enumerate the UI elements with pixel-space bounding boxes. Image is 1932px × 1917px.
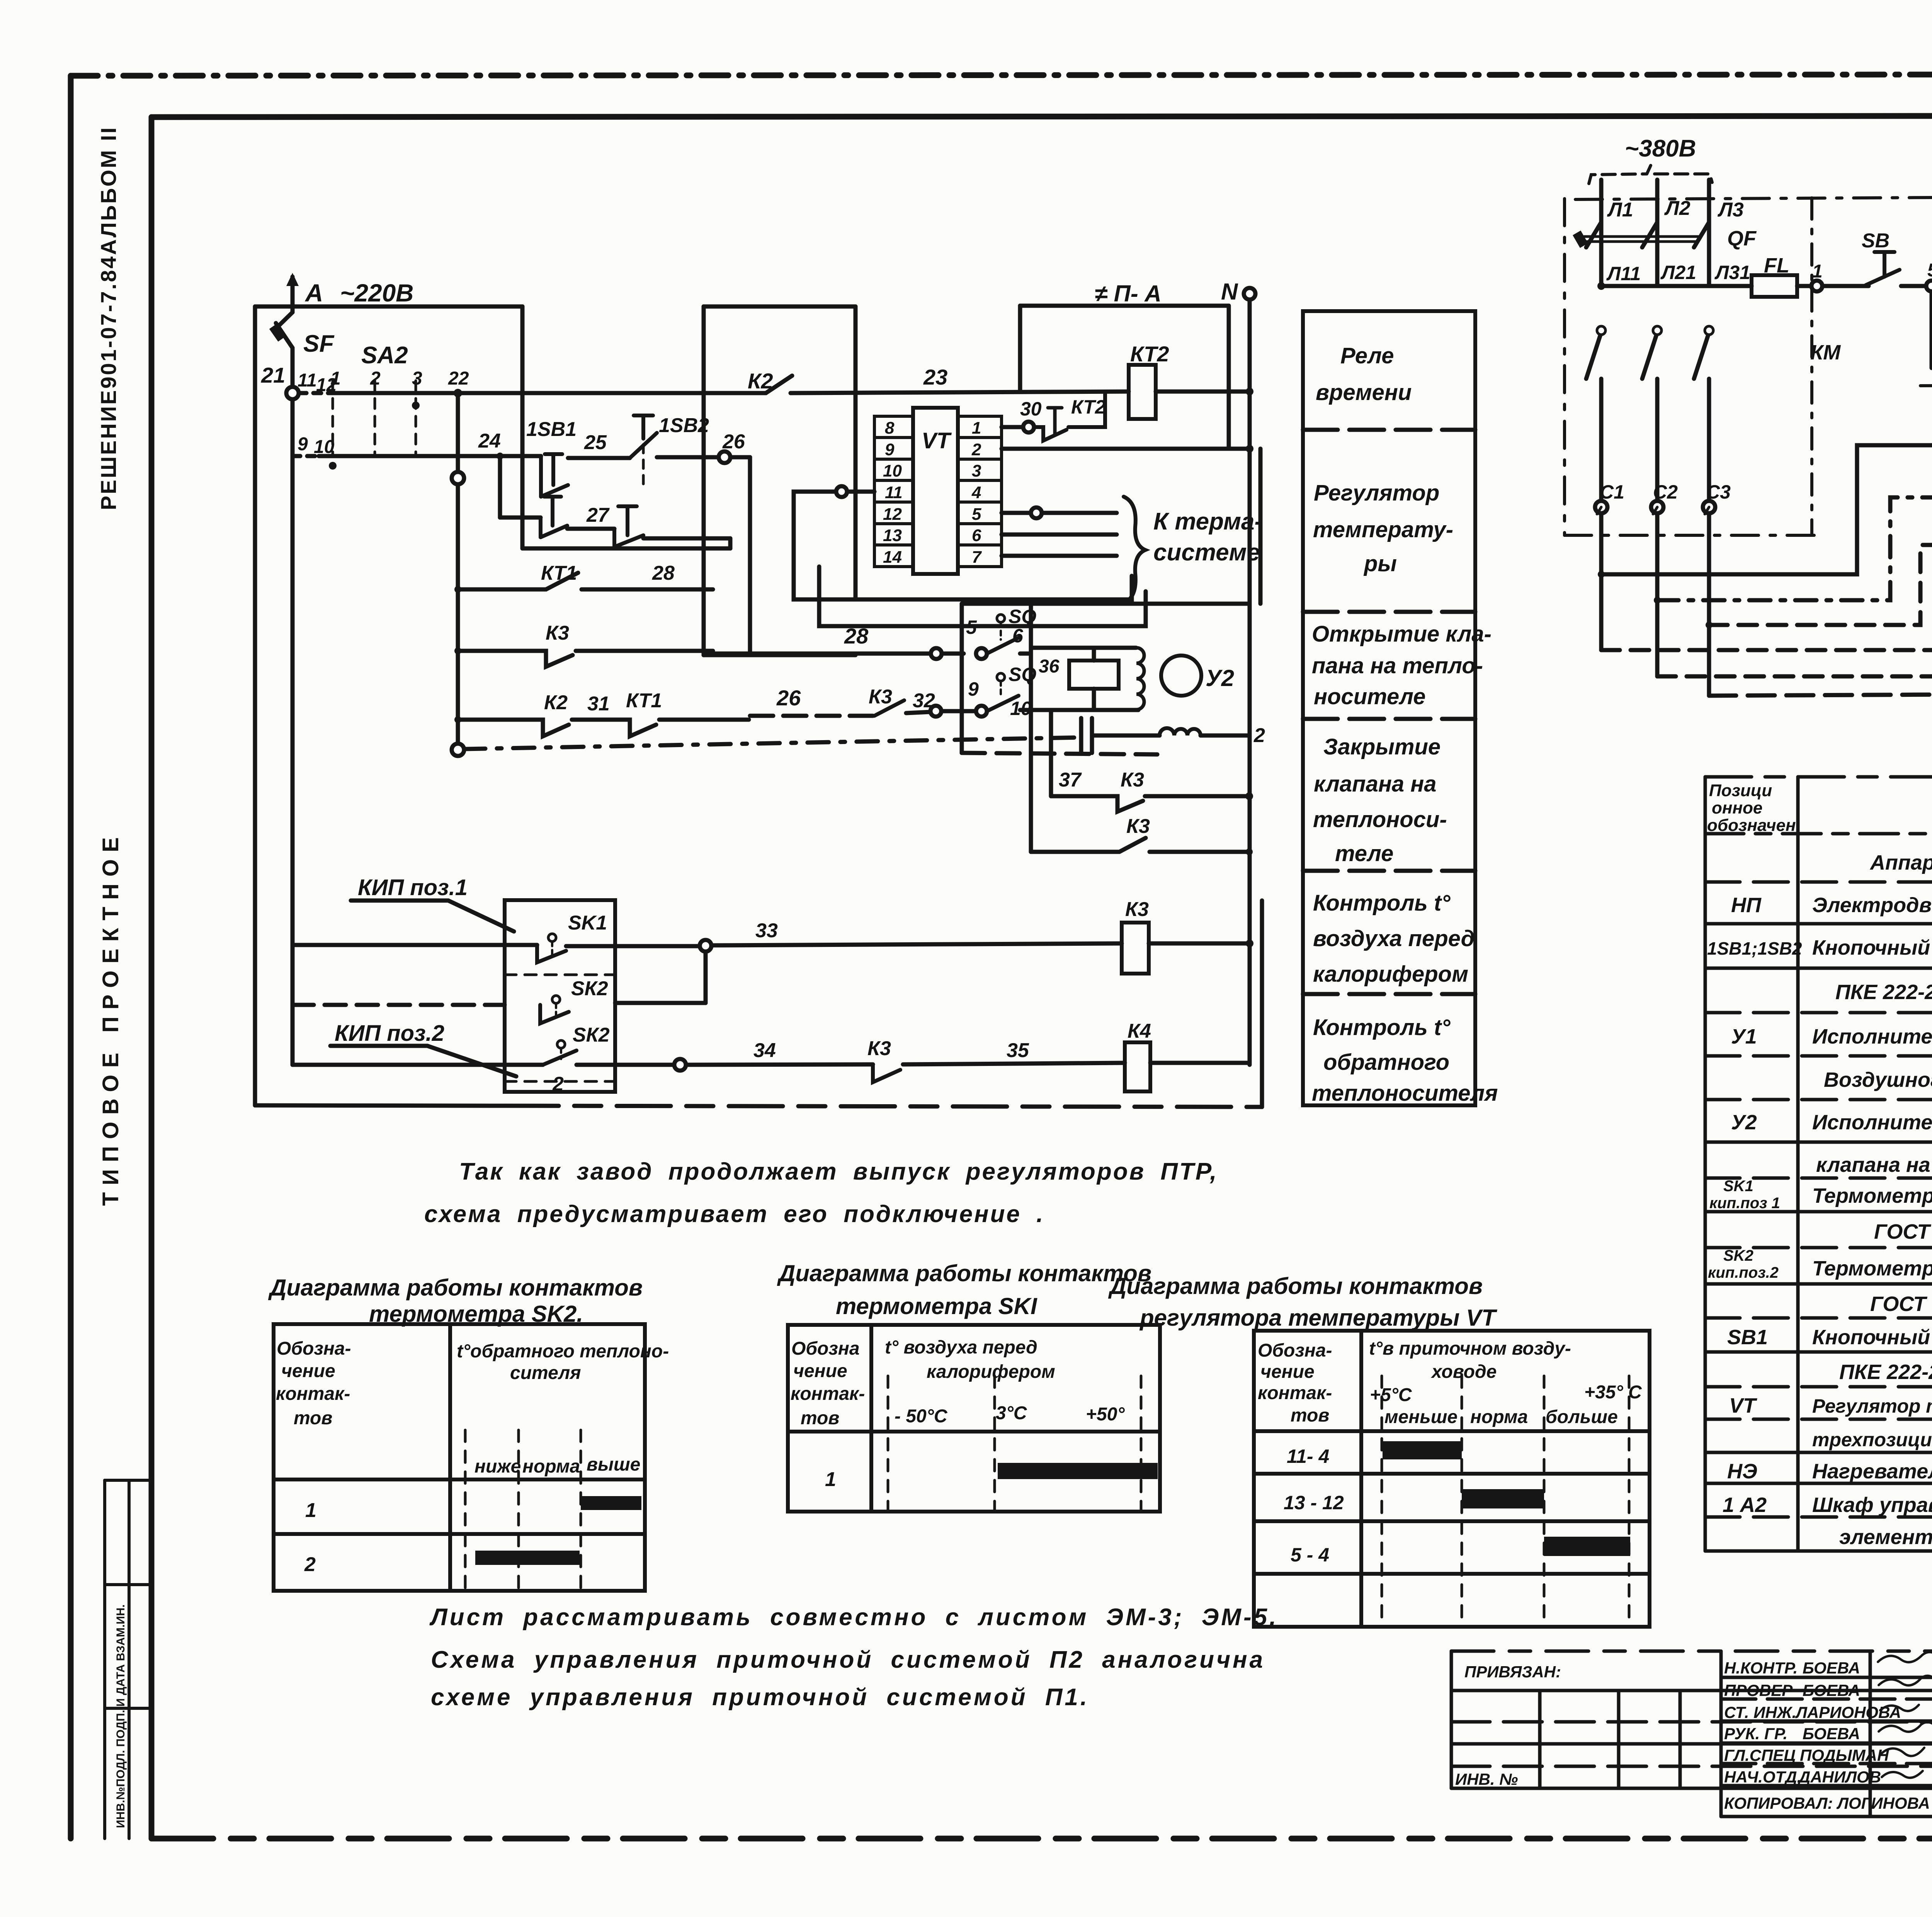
breaker SF xyxy=(277,312,293,328)
svg-text:ИНВ. №: ИНВ. № xyxy=(1455,1770,1518,1788)
svg-text:12: 12 xyxy=(883,505,902,524)
svg-text:28: 28 xyxy=(652,562,675,584)
svg-text:Л21: Л21 xyxy=(1660,262,1696,283)
svg-text:11: 11 xyxy=(885,483,903,502)
inner frame left xyxy=(149,117,155,1839)
svg-text:КМ: КМ xyxy=(1810,341,1841,364)
svg-text:2: 2 xyxy=(971,440,981,459)
bar row1 vyshe xyxy=(581,1496,641,1510)
svg-text:Контроль t°: Контроль t° xyxy=(1313,890,1451,916)
svg-text:Нагревательный элемент N=1.6 к: Нагревательный элемент N=1.6 кВт xyxy=(1812,1460,1932,1483)
svg-text:норма: норма xyxy=(1470,1407,1528,1427)
svg-text:7: 7 xyxy=(972,548,982,567)
svg-text:У2: У2 xyxy=(1731,1111,1757,1134)
svg-text:ТИПОВОЕ ПРОЕКТНОЕ: ТИПОВОЕ ПРОЕКТНОЕ xyxy=(98,830,123,1206)
svg-text:К3: К3 xyxy=(1121,769,1144,791)
svg-text:КОПИРОВАЛ: ЛОГИНОВА: КОПИРОВАЛ: ЛОГИНОВА xyxy=(1724,1794,1930,1812)
svg-text:14: 14 xyxy=(883,548,902,567)
node 22 junction xyxy=(454,389,462,397)
svg-text:Исполнительный механизм: Исполнительный механизм xyxy=(1812,1111,1932,1134)
svg-text:теле: теле xyxy=(1335,841,1393,866)
svg-text:НЭ: НЭ xyxy=(1727,1460,1757,1483)
node on dash rail xyxy=(452,744,464,756)
svg-text:5: 5 xyxy=(966,616,977,638)
bar row1 norma-bolshe xyxy=(998,1463,1158,1479)
svg-text:13 - 12: 13 - 12 xyxy=(1284,1492,1344,1514)
svg-text:ПРОВЕР: ПРОВЕР xyxy=(1724,1681,1793,1699)
svg-text:клапана на теплоносителе: клапана на теплоносителе xyxy=(1816,1153,1932,1176)
svg-text:1: 1 xyxy=(972,419,981,438)
svg-text:ры: ры xyxy=(1363,551,1397,576)
svg-text:Обозна: Обозна xyxy=(791,1338,860,1359)
svg-text:Позици: Позици xyxy=(1709,781,1772,800)
svg-text:Диаграмма работы контактов: Диаграмма работы контактов xyxy=(1108,1273,1483,1299)
svg-text:калорифером: калорифером xyxy=(927,1362,1055,1382)
wires pins 5 6 7 to thermosystem xyxy=(1002,511,1031,515)
svg-text:13: 13 xyxy=(883,526,902,545)
column dividers xyxy=(1796,777,1800,1551)
svg-text:35: 35 xyxy=(1007,1039,1029,1062)
bar row2 nizhe xyxy=(475,1551,580,1565)
svg-text:8: 8 xyxy=(885,419,895,438)
svg-text:Открытие кла-: Открытие кла- xyxy=(1312,621,1492,647)
svg-text:К3: К3 xyxy=(869,686,892,708)
svg-text:чение: чение xyxy=(793,1361,847,1381)
svg-text:t°обратного теплоно-: t°обратного теплоно- xyxy=(457,1341,669,1362)
wire line2 xyxy=(293,454,319,458)
svg-text:1: 1 xyxy=(305,1499,316,1522)
svg-text:ПКЕ 222-2У3 ТУ16.526.217-78: ПКЕ 222-2У3 ТУ16.526.217-78 xyxy=(1835,981,1932,1004)
svg-text:- 50°С: - 50°С xyxy=(895,1406,948,1427)
svg-text:тов: тов xyxy=(801,1408,839,1428)
svg-text:чение: чение xyxy=(1260,1362,1315,1382)
svg-text:22: 22 xyxy=(448,368,469,389)
wire top connector xyxy=(704,305,855,309)
svg-text:Л2: Л2 xyxy=(1664,197,1690,220)
KIP box xyxy=(505,900,615,1092)
VT pin numbers xyxy=(883,419,982,567)
svg-text:кип.поз.2: кип.поз.2 xyxy=(1708,1264,1779,1281)
svg-text:кип.поз 1: кип.поз 1 xyxy=(1709,1195,1780,1212)
svg-text:Н.КОНТР.: Н.КОНТР. xyxy=(1724,1659,1798,1677)
svg-text:КИП поз.1: КИП поз.1 xyxy=(358,875,468,900)
svg-text:6: 6 xyxy=(972,526,981,545)
feed C3 to H3 dashed xyxy=(1706,621,1713,628)
svg-text:Регулятор: Регулятор xyxy=(1314,480,1439,506)
svg-text:26: 26 xyxy=(776,686,801,710)
svg-text:ИНВ.№ПОДЛ. ПОДП. И ДАТА ВЗ: ИНВ.№ПОДЛ. ПОДП. И ДАТА ВЗАМ.ИН. xyxy=(114,1604,127,1828)
wire pin1 to KT2 aux contact xyxy=(1002,425,1024,429)
svg-text:выше: выше xyxy=(587,1454,640,1475)
svg-text:25: 25 xyxy=(584,431,607,454)
P-A box left xyxy=(1018,306,1022,392)
svg-text:Диаграмма работы контактов: Диаграмма работы контактов xyxy=(268,1275,643,1301)
sub-box bottom wire xyxy=(522,546,730,551)
svg-text:VT: VT xyxy=(922,428,952,453)
circuit box right edge upper xyxy=(520,306,525,548)
svg-text:ДАНИЛОВ: ДАНИЛОВ xyxy=(1798,1768,1881,1786)
bracket xyxy=(1589,165,1712,184)
svg-text:SK1: SK1 xyxy=(1723,1178,1753,1195)
svg-text:Л3: Л3 xyxy=(1717,199,1744,221)
svg-text:1 А2: 1 А2 xyxy=(1723,1493,1767,1517)
svg-text:норма: норма xyxy=(522,1456,580,1477)
U2 enclosure box left xyxy=(960,604,964,753)
cabinet right dash-dot edge xyxy=(1810,198,1813,534)
svg-text:К3: К3 xyxy=(546,622,569,644)
svg-text:К3: К3 xyxy=(1126,815,1150,838)
wire 34 xyxy=(293,1063,543,1067)
svg-text:КТ2: КТ2 xyxy=(1071,396,1106,418)
svg-text:К4: К4 xyxy=(1128,1020,1151,1042)
svg-text:БОЕВА: БОЕВА xyxy=(1803,1725,1860,1743)
svg-text:времени: времени xyxy=(1316,380,1412,405)
svg-text:N: N xyxy=(1221,279,1238,305)
button 1SB2 lower contact xyxy=(614,506,643,547)
svg-text:К3: К3 xyxy=(1125,898,1149,921)
feed C1 to H4 dashed xyxy=(1601,596,1932,650)
svg-text:чение: чение xyxy=(281,1361,335,1381)
contact K3 rung 1 xyxy=(1051,796,1143,812)
svg-text:Л1: Л1 xyxy=(1607,199,1633,221)
svg-text:SF: SF xyxy=(303,330,335,357)
svg-text:СТ. ИНЖ.: СТ. ИНЖ. xyxy=(1724,1703,1796,1721)
svg-text:теплоносителя: теплоносителя xyxy=(1312,1081,1498,1106)
svg-text:+35° С: +35° С xyxy=(1584,1382,1642,1403)
svg-text:калорифером: калорифером xyxy=(1313,962,1468,987)
svg-text:SК2: SК2 xyxy=(571,977,608,1000)
drop from node 33 to SK2 line xyxy=(704,952,708,1003)
svg-text:контак-: контак- xyxy=(791,1384,865,1404)
box right edge above xyxy=(1259,449,1263,604)
main control wire xyxy=(1601,284,1752,288)
left margin stamp column lines xyxy=(105,1480,151,1839)
circuit box left edge xyxy=(253,306,257,1105)
wire vertical 6 down xyxy=(1029,604,1033,852)
svg-text:QF: QF xyxy=(1727,227,1757,250)
bar row 13-12 xyxy=(1462,1489,1544,1508)
horizontal y1695 xyxy=(704,653,855,657)
inner frame bottom dashed xyxy=(151,1836,1932,1842)
svg-text:Воздушного клапана: Воздушного клапана xyxy=(1824,1068,1932,1091)
svg-text:Лист рассматривать совместно с: Лист рассматривать совместно с листом ЭМ… xyxy=(429,1604,1278,1631)
right frame of circuit xyxy=(1260,901,1264,1107)
svg-text:2: 2 xyxy=(1253,724,1265,747)
button 1SB1 lower contact xyxy=(541,497,567,537)
svg-text:Схема управления приточной сис: Схема управления приточной системой П2 а… xyxy=(431,1646,1265,1673)
svg-text:2: 2 xyxy=(304,1553,316,1576)
svg-text:SК2: SК2 xyxy=(573,1024,610,1046)
svg-text:К3: К3 xyxy=(867,1037,891,1060)
svg-text:Исполнительный механизм: Исполнительный механизм xyxy=(1812,1025,1932,1048)
svg-text:t° воздуха перед: t° воздуха перед xyxy=(885,1337,1037,1358)
svg-text:тов: тов xyxy=(1291,1405,1329,1426)
svg-text:ховоде: ховоде xyxy=(1430,1362,1497,1382)
svg-text:К терма-: К терма- xyxy=(1153,508,1262,535)
svg-text:Обозна-: Обозна- xyxy=(277,1338,351,1359)
svg-text:тов: тов xyxy=(294,1408,332,1428)
svg-text:больше: больше xyxy=(1546,1407,1618,1427)
svg-text:КТ1: КТ1 xyxy=(626,690,662,712)
svg-text:23: 23 xyxy=(923,365,947,389)
svg-text:ПРИВЯЗАН:: ПРИВЯЗАН: xyxy=(1464,1663,1561,1681)
SA2 dashed selector strokes xyxy=(332,381,334,456)
svg-text:носителе: носителе xyxy=(1314,684,1426,709)
motor circle U2 xyxy=(1161,655,1201,696)
bottom dashed rail xyxy=(255,1105,505,1106)
rail SF down xyxy=(291,399,295,1065)
svg-text:У2: У2 xyxy=(1206,665,1234,691)
vertical x2214 top xyxy=(854,306,858,599)
svg-text:ГЛ.СПЕЦ: ГЛ.СПЕЦ xyxy=(1724,1746,1796,1764)
N rail xyxy=(1248,300,1252,1065)
svg-text:А: А xyxy=(304,279,323,307)
svg-text:НАЧ.ОТД.: НАЧ.ОТД. xyxy=(1724,1768,1801,1786)
bar row 5-4 xyxy=(1544,1537,1630,1556)
svg-text:5: 5 xyxy=(1927,260,1932,281)
inner frame top xyxy=(151,116,1932,117)
rung KT1 xyxy=(454,586,461,593)
svg-text:5 - 4: 5 - 4 xyxy=(1291,1544,1329,1566)
svg-text:24: 24 xyxy=(478,430,501,452)
svg-text:ниже: ниже xyxy=(474,1456,521,1477)
svg-text:3: 3 xyxy=(972,461,981,480)
svg-text:Электродвигатель 4А71Л4; 0,55к: Электродвигатель 4А71Л4; 0,55кВт. ~380В xyxy=(1812,894,1932,917)
svg-text:клапана на: клапана на xyxy=(1314,771,1437,797)
svg-text:Так как завод продолжает выпу: Так как завод продолжает выпуск регулято… xyxy=(459,1158,1218,1185)
svg-text:регулятора температуры VT: регулятора температуры VT xyxy=(1139,1305,1497,1331)
svg-text:контак-: контак- xyxy=(276,1384,350,1404)
svg-text:Контроль t°: Контроль t° xyxy=(1313,1015,1451,1040)
svg-text:Л11: Л11 xyxy=(1606,263,1641,284)
svg-text:28: 28 xyxy=(844,624,869,648)
svg-text:БОЕВА: БОЕВА xyxy=(1803,1681,1860,1699)
rung K2 31 KT1 xyxy=(454,716,461,723)
lower routing wires under VT xyxy=(855,576,1132,599)
P-A box top xyxy=(1020,304,1229,308)
outer left border line xyxy=(68,76,74,1839)
svg-text:системе: системе xyxy=(1153,539,1260,566)
dash-dot line 2 to right xyxy=(464,737,1081,749)
top dash-dot border xyxy=(71,74,1932,76)
svg-text:Шкаф управления нагревательн: Шкаф управления нагревательным xyxy=(1812,1493,1932,1517)
svg-text:2: 2 xyxy=(552,1073,564,1095)
svg-text:34: 34 xyxy=(753,1039,776,1062)
cabinet boundary left xyxy=(1563,199,1566,535)
wire line1 xyxy=(299,391,329,395)
svg-text:Диаграмма работы контактов: Диаграмма работы контактов xyxy=(777,1260,1151,1286)
svg-text:11- 4: 11- 4 xyxy=(1287,1445,1329,1467)
svg-text:VT: VT xyxy=(1729,1394,1757,1417)
bar row 11-4 xyxy=(1383,1441,1462,1459)
svg-text:термометра SKI: термометра SKI xyxy=(836,1293,1037,1319)
svg-text:схема предусматривает его подк: схема предусматривает его подключение . xyxy=(424,1201,1044,1227)
svg-text:36: 36 xyxy=(1039,656,1060,677)
svg-text:Кнопочный пост управления: Кнопочный пост управления xyxy=(1812,1326,1932,1349)
svg-text:обозначен.: обозначен. xyxy=(1707,816,1801,835)
svg-text:КИП поз.2: КИП поз.2 xyxy=(335,1021,444,1046)
svg-text:4: 4 xyxy=(971,483,981,502)
svg-text:27: 27 xyxy=(586,504,610,526)
U2 enclosure box top xyxy=(962,602,1249,606)
svg-text:37: 37 xyxy=(1059,769,1082,791)
table outline xyxy=(1705,775,1932,779)
privyazan box xyxy=(1451,1651,1932,1817)
vertical from top box to y1695 xyxy=(702,306,706,655)
actuator coil assembly xyxy=(1031,646,1136,650)
VT pin table right xyxy=(958,416,1002,567)
svg-text:БОЕВА: БОЕВА xyxy=(1803,1659,1860,1677)
row lines xyxy=(1705,880,1932,884)
svg-text:РЕШЕНИЕ901-07-7.84АЛЬБОМ II: РЕШЕНИЕ901-07-7.84АЛЬБОМ II xyxy=(96,126,121,510)
rail 22 down xyxy=(456,393,460,750)
svg-text:ПОДЫМАН: ПОДЫМАН xyxy=(1800,1746,1889,1764)
svg-text:Реле: Реле xyxy=(1340,343,1394,368)
branch from 24 to second buttons xyxy=(498,456,502,518)
svg-text:1: 1 xyxy=(825,1468,836,1491)
svg-text:Кнопочный пост управления: Кнопочный пост управления xyxy=(1812,936,1932,959)
rung K3 xyxy=(454,647,461,654)
capacitor on line 2 xyxy=(1081,718,1092,753)
svg-text:+5°С: +5°С xyxy=(1370,1385,1412,1405)
circuit box top edge xyxy=(255,305,522,309)
svg-text:SB: SB xyxy=(1862,230,1889,252)
svg-text:контак-: контак- xyxy=(1258,1383,1332,1403)
svg-text:1SB1: 1SB1 xyxy=(526,418,577,441)
svg-text:31: 31 xyxy=(587,693,610,715)
svg-text:Регулятор температуры полупров: Регулятор температуры полупроводниковый xyxy=(1812,1395,1932,1417)
svg-text:3°С: 3°С xyxy=(996,1403,1027,1423)
svg-text:10: 10 xyxy=(883,461,902,480)
svg-text:11: 11 xyxy=(298,370,317,391)
svg-text:21: 21 xyxy=(261,363,285,387)
svg-text:9: 9 xyxy=(968,678,979,700)
svg-text:Обозна-: Обозна- xyxy=(1258,1340,1332,1361)
wire 25 xyxy=(568,456,630,460)
feed C1 to H1 solid xyxy=(1598,571,1605,578)
thermo brace xyxy=(1124,497,1145,603)
svg-text:У1: У1 xyxy=(1731,1025,1757,1048)
svg-text:воздуха перед: воздуха перед xyxy=(1313,926,1475,951)
VT body xyxy=(913,408,958,574)
supply arrow A ~220V xyxy=(291,277,295,312)
node N xyxy=(1244,288,1255,300)
svg-text:ГОСТ 8624-71: ГОСТ 8624-71 xyxy=(1870,1292,1932,1316)
svg-text:+50°: +50° xyxy=(1086,1404,1125,1425)
svg-text:элементом ЯУ 5111-03А2Н: элементом ЯУ 5111-03А2Н xyxy=(1839,1525,1932,1549)
svg-text:НП: НП xyxy=(1731,894,1762,917)
vertical x1941 xyxy=(748,457,752,655)
svg-text:9: 9 xyxy=(885,440,895,459)
svg-text:Аппаратура по месту.: Аппаратура по месту. xyxy=(1869,851,1932,874)
svg-text:Термометр манометрический ТПГ-: Термометр манометрический ТПГ-СК xyxy=(1812,1257,1932,1280)
P-A box right xyxy=(1227,306,1231,449)
svg-text:пана на тепло-: пана на тепло- xyxy=(1312,653,1483,678)
svg-text:РУК. ГР.: РУК. ГР. xyxy=(1724,1725,1787,1743)
wire pin11 to left xyxy=(847,490,874,494)
signature squiggles xyxy=(1878,1652,1932,1777)
phase leads L1 L2 L3 xyxy=(1599,180,1604,286)
feed C3 to H6 solid-dash xyxy=(1709,693,1932,696)
U2 enclosure box bottom dashed xyxy=(962,753,1157,754)
svg-text:сителя: сителя xyxy=(510,1363,581,1383)
svg-text:9: 9 xyxy=(298,434,308,455)
VT pin table left xyxy=(874,416,913,567)
svg-text:6: 6 xyxy=(1012,625,1024,647)
svg-text:t°в приточном возду-: t°в приточном возду- xyxy=(1369,1338,1571,1359)
svg-text:Л31: Л31 xyxy=(1714,262,1750,283)
svg-text:меньше: меньше xyxy=(1384,1407,1458,1427)
svg-text:≠ П- А: ≠ П- А xyxy=(1095,281,1162,306)
svg-text:SK1: SK1 xyxy=(568,912,607,934)
svg-text:Термометр манометрический ТПГ-: Термометр манометрический ТПГ-СК xyxy=(1812,1184,1932,1207)
svg-text:~220В: ~220В xyxy=(340,279,413,307)
svg-text:трехпозиционный ПТР-3-04ТУ2503: трехпозиционный ПТР-3-04ТУ2503-346-70 xyxy=(1812,1429,1932,1451)
svg-text:~380В: ~380В xyxy=(1625,135,1696,162)
svg-text:33: 33 xyxy=(755,919,778,942)
svg-text:1SB1;1SB2: 1SB1;1SB2 xyxy=(1707,938,1802,958)
wire pin2 to N rail xyxy=(1002,447,1249,451)
svg-text:обратного: обратного xyxy=(1323,1050,1449,1075)
svg-text:КТ2: КТ2 xyxy=(1130,342,1169,366)
feed C2 to H2 dash-dot xyxy=(1654,597,1661,604)
svg-text:SB1: SB1 xyxy=(1727,1326,1768,1349)
wire 33 xyxy=(293,943,537,947)
svg-text:Закрытие: Закрытие xyxy=(1323,734,1440,759)
header row line xyxy=(1705,832,1932,836)
svg-text:ГОСТ 8624-71.: ГОСТ 8624-71. xyxy=(1874,1220,1932,1243)
inductor on line 2 xyxy=(1160,728,1201,735)
feed C2 to H5 dashed xyxy=(1657,646,1932,676)
svg-text:ПКЕ 222-2У3 ТУ 16.526. 217-78: ПКЕ 222-2У3 ТУ 16.526. 217-78 xyxy=(1839,1360,1932,1384)
svg-text:30: 30 xyxy=(1020,398,1042,420)
svg-text:5: 5 xyxy=(972,505,981,524)
svg-text:температу-: температу- xyxy=(1313,517,1453,542)
svg-text:SA2: SA2 xyxy=(361,342,408,369)
svg-text:онное: онное xyxy=(1712,798,1762,817)
wire 37 xyxy=(1049,711,1053,796)
svg-text:схеме управления приточной сис: схеме управления приточной системой П1. xyxy=(431,1684,1089,1711)
svg-text:SK2: SK2 xyxy=(1723,1247,1753,1264)
svg-text:теплоноси-: теплоноси- xyxy=(1313,807,1447,832)
svg-text:К2: К2 xyxy=(544,691,568,714)
svg-text:SQ: SQ xyxy=(1009,664,1036,685)
